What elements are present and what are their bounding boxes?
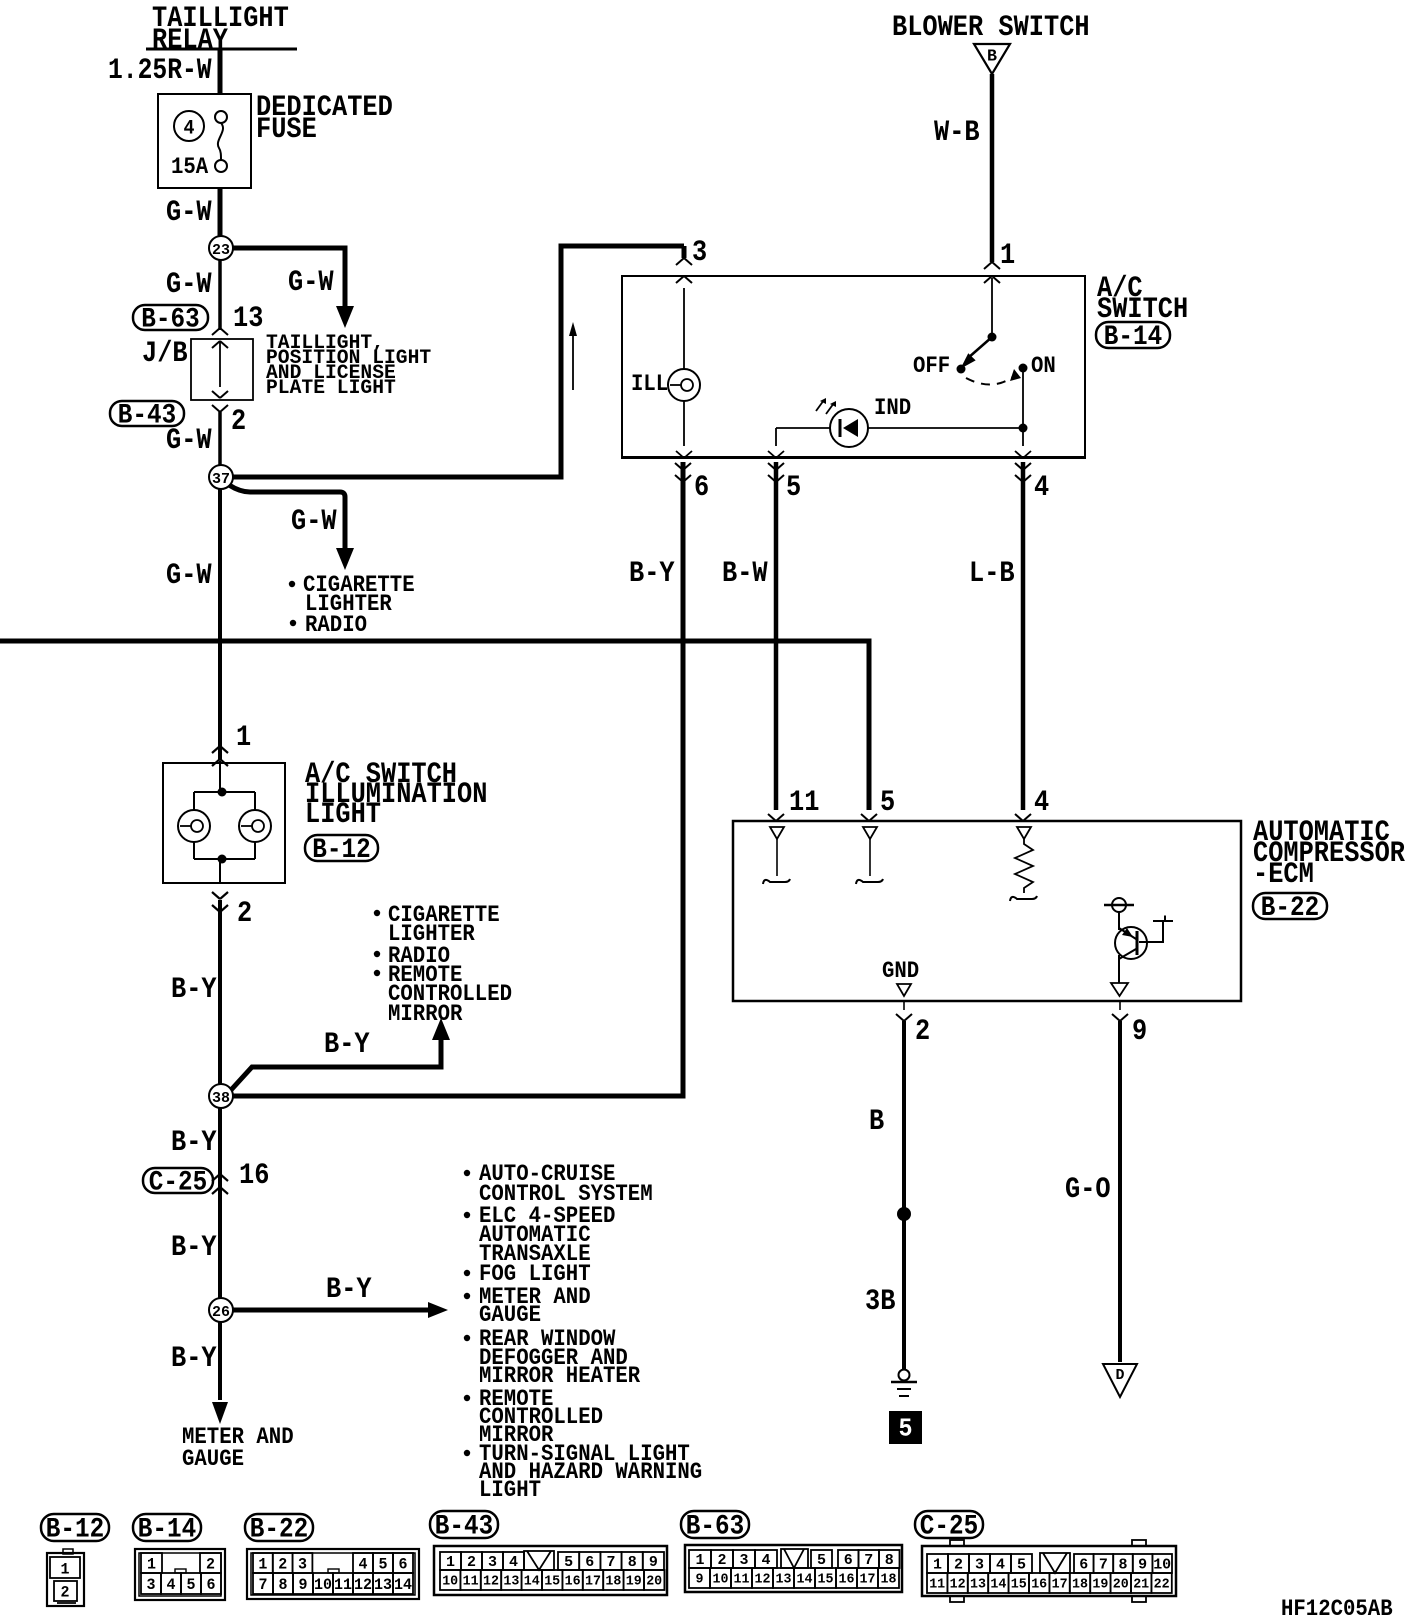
svg-text:FUSE: FUSE	[256, 113, 317, 147]
svg-text:B-Y: B-Y	[326, 1273, 372, 1307]
svg-text:5: 5	[880, 786, 895, 820]
svg-text:G-W: G-W	[166, 424, 212, 458]
svg-text:GAUGE: GAUGE	[182, 1446, 244, 1472]
svg-text:G-W: G-W	[288, 266, 334, 300]
svg-text:12: 12	[483, 1574, 499, 1590]
svg-text:RADIO: RADIO	[305, 612, 367, 638]
svg-text:9: 9	[1138, 1557, 1147, 1574]
svg-text:15A: 15A	[171, 154, 208, 180]
svg-text:12: 12	[950, 1577, 966, 1593]
svg-text:LIGHT: LIGHT	[305, 798, 381, 832]
svg-text:6: 6	[207, 1576, 216, 1594]
svg-text:16: 16	[839, 1572, 855, 1588]
svg-text:18: 18	[881, 1572, 897, 1588]
svg-text:PLATE LIGHT: PLATE LIGHT	[266, 377, 396, 400]
svg-text:B-12: B-12	[312, 835, 370, 866]
svg-text:17: 17	[585, 1574, 601, 1590]
svg-text:L-B: L-B	[969, 557, 1015, 591]
svg-text:4: 4	[359, 1555, 368, 1573]
svg-text:OFF: OFF	[913, 353, 950, 379]
svg-text:ON: ON	[1031, 353, 1056, 379]
svg-text:B-Y: B-Y	[629, 557, 675, 591]
svg-text:3B: 3B	[865, 1285, 895, 1319]
svg-text:18: 18	[605, 1574, 621, 1590]
svg-text:10: 10	[1153, 1557, 1171, 1574]
svg-text:1: 1	[61, 1560, 70, 1578]
svg-text:3: 3	[298, 1555, 307, 1573]
svg-text:B-12: B-12	[46, 1515, 104, 1546]
svg-text:1: 1	[1000, 239, 1015, 273]
svg-text:C-25: C-25	[149, 1168, 207, 1199]
svg-text:GND: GND	[882, 958, 919, 984]
svg-text:19: 19	[626, 1574, 642, 1590]
svg-text:9: 9	[299, 1576, 308, 1594]
svg-text:B-22: B-22	[1261, 893, 1319, 924]
svg-text:6: 6	[694, 471, 709, 505]
svg-text:ILL: ILL	[631, 371, 668, 397]
svg-text:13: 13	[503, 1574, 519, 1590]
svg-text:23: 23	[212, 242, 230, 259]
svg-text:1: 1	[696, 1552, 705, 1569]
svg-text:20: 20	[1113, 1577, 1129, 1593]
svg-text:-ECM: -ECM	[1253, 858, 1314, 892]
svg-text:10: 10	[314, 1576, 332, 1594]
svg-text:18: 18	[1072, 1577, 1088, 1593]
svg-text:8: 8	[628, 1554, 637, 1571]
svg-text:9: 9	[649, 1554, 658, 1571]
svg-text:12: 12	[755, 1572, 771, 1588]
svg-text:RELAY: RELAY	[152, 24, 228, 58]
svg-text:8: 8	[279, 1576, 288, 1594]
svg-text:5: 5	[564, 1554, 573, 1571]
svg-text:11: 11	[929, 1577, 945, 1593]
svg-text:11: 11	[789, 786, 819, 820]
svg-text:16: 16	[239, 1159, 269, 1193]
svg-text:16: 16	[1031, 1577, 1047, 1593]
svg-text:C-25: C-25	[920, 1512, 978, 1543]
svg-text:G-W: G-W	[166, 559, 212, 593]
svg-text:5: 5	[786, 471, 801, 505]
svg-text:4: 4	[762, 1552, 771, 1569]
svg-text:11: 11	[334, 1576, 352, 1594]
svg-text:7: 7	[259, 1576, 268, 1594]
svg-text:B-W: B-W	[722, 557, 768, 591]
svg-text:G-W: G-W	[166, 196, 212, 230]
svg-text:16: 16	[565, 1574, 581, 1590]
svg-text:7: 7	[1099, 1557, 1108, 1574]
svg-text:LIGHT: LIGHT	[479, 1477, 541, 1503]
svg-text:11: 11	[734, 1572, 750, 1588]
svg-text:13: 13	[776, 1572, 792, 1588]
svg-text:B-Y: B-Y	[171, 1126, 217, 1160]
svg-text:15: 15	[1011, 1577, 1027, 1593]
svg-text:2: 2	[718, 1552, 727, 1569]
svg-text:6: 6	[585, 1554, 594, 1571]
svg-text:21: 21	[1133, 1577, 1149, 1593]
svg-text:G-O: G-O	[1065, 1173, 1111, 1207]
svg-text:J/B: J/B	[142, 337, 188, 371]
svg-text:3: 3	[692, 236, 707, 270]
svg-text:15: 15	[818, 1572, 834, 1588]
svg-text:B-14: B-14	[1104, 322, 1162, 353]
svg-text:7: 7	[864, 1552, 873, 1569]
svg-text:2: 2	[206, 1555, 215, 1573]
svg-text:4: 4	[996, 1557, 1005, 1574]
svg-text:13: 13	[233, 302, 263, 336]
svg-text:20: 20	[646, 1574, 662, 1590]
svg-text:1: 1	[236, 721, 251, 755]
svg-text:22: 22	[1154, 1577, 1170, 1593]
svg-text:2: 2	[467, 1554, 476, 1571]
svg-text:1: 1	[147, 1555, 156, 1573]
svg-text:W-B: W-B	[934, 116, 980, 150]
svg-text:B: B	[869, 1105, 884, 1139]
svg-text:13: 13	[374, 1576, 392, 1594]
svg-text:HF12C05AB: HF12C05AB	[1281, 1596, 1393, 1616]
svg-text:G-W: G-W	[291, 505, 337, 539]
svg-text:10: 10	[713, 1572, 729, 1588]
svg-text:14: 14	[394, 1576, 412, 1594]
svg-text:6: 6	[1079, 1557, 1088, 1574]
svg-text:IND: IND	[874, 395, 911, 421]
svg-text:5: 5	[379, 1555, 388, 1573]
svg-text:26: 26	[212, 1304, 230, 1321]
svg-text:11: 11	[463, 1574, 479, 1590]
svg-text:19: 19	[1092, 1577, 1108, 1593]
svg-text:4: 4	[184, 118, 195, 141]
svg-text:4: 4	[167, 1576, 176, 1594]
svg-text:3: 3	[488, 1554, 497, 1571]
svg-text:5: 5	[899, 1414, 913, 1444]
svg-text:5: 5	[1017, 1557, 1026, 1574]
svg-text:5: 5	[187, 1576, 196, 1594]
svg-text:5: 5	[817, 1552, 826, 1569]
svg-text:B-Y: B-Y	[171, 1231, 217, 1265]
svg-text:9: 9	[1132, 1015, 1147, 1049]
svg-text:B-22: B-22	[250, 1515, 308, 1546]
svg-text:B-Y: B-Y	[171, 973, 217, 1007]
svg-text:1: 1	[933, 1557, 942, 1574]
svg-text:6: 6	[399, 1555, 408, 1573]
svg-text:B: B	[987, 48, 997, 67]
svg-text:4: 4	[1034, 786, 1049, 820]
svg-text:14: 14	[524, 1574, 540, 1590]
svg-text:1: 1	[446, 1554, 455, 1571]
svg-text:6: 6	[844, 1552, 853, 1569]
svg-text:D: D	[1116, 1367, 1125, 1384]
svg-text:14: 14	[797, 1572, 813, 1588]
svg-text:8: 8	[885, 1552, 894, 1569]
svg-text:G-W: G-W	[166, 268, 212, 302]
svg-text:B-14: B-14	[138, 1515, 196, 1546]
svg-text:9: 9	[696, 1572, 704, 1588]
svg-text:BLOWER SWITCH: BLOWER SWITCH	[892, 11, 1090, 45]
svg-text:2: 2	[231, 405, 246, 439]
svg-text:B-63: B-63	[141, 305, 199, 336]
svg-text:3: 3	[740, 1552, 749, 1569]
svg-text:12: 12	[354, 1576, 372, 1594]
svg-text:17: 17	[1052, 1577, 1068, 1593]
svg-text:B-Y: B-Y	[324, 1028, 370, 1062]
svg-text:GAUGE: GAUGE	[479, 1302, 541, 1328]
svg-text:7: 7	[607, 1554, 616, 1571]
svg-text:MIRROR: MIRROR	[388, 1001, 463, 1027]
svg-text:2: 2	[237, 897, 252, 931]
svg-text:2: 2	[954, 1557, 963, 1574]
svg-text:38: 38	[212, 1090, 230, 1107]
svg-text:15: 15	[544, 1574, 560, 1590]
svg-text:4: 4	[509, 1554, 518, 1571]
svg-text:14: 14	[990, 1577, 1006, 1593]
svg-text:2: 2	[915, 1015, 930, 1049]
svg-text:2: 2	[278, 1555, 287, 1573]
svg-text:17: 17	[860, 1572, 876, 1588]
svg-text:3: 3	[975, 1557, 984, 1574]
svg-text:B-Y: B-Y	[171, 1342, 217, 1376]
svg-text:B-43: B-43	[435, 1512, 493, 1543]
svg-text:10: 10	[442, 1574, 458, 1590]
svg-text:1: 1	[258, 1555, 267, 1573]
svg-text:4: 4	[1034, 471, 1049, 505]
svg-text:8: 8	[1119, 1557, 1128, 1574]
svg-text:3: 3	[147, 1576, 156, 1594]
svg-text:37: 37	[212, 471, 230, 488]
svg-text:13: 13	[970, 1577, 986, 1593]
svg-text:2: 2	[61, 1583, 70, 1601]
svg-text:1.25R-W: 1.25R-W	[108, 54, 212, 88]
svg-text:B-63: B-63	[686, 1512, 744, 1543]
